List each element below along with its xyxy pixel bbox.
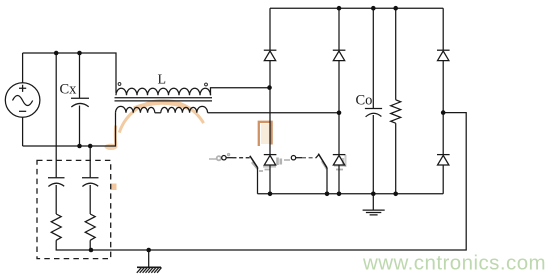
svg-text:Cx: Cx	[60, 82, 78, 98]
svg-text:www.cntronics.com: www.cntronics.com	[362, 252, 546, 275]
svg-text:Co: Co	[356, 93, 373, 109]
svg-text:L: L	[158, 73, 167, 88]
